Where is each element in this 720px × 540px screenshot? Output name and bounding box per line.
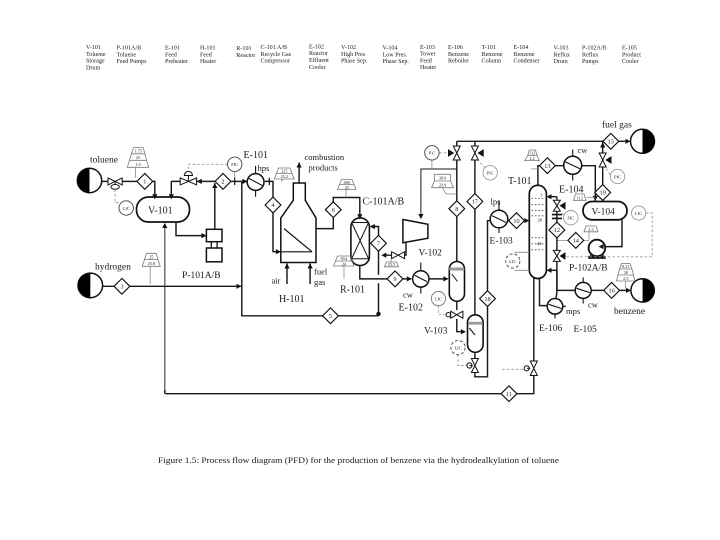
svg-text:V-104: V-104: [592, 208, 616, 218]
control valve V-103 bottom: [471, 359, 478, 373]
stream diamond 5: [323, 308, 339, 324]
svg-text:LIC: LIC: [509, 259, 516, 264]
instrument LIC V-103: [451, 341, 465, 355]
wire E-105 to benzene exit: [591, 289, 628, 291]
svg-text:23.9: 23.9: [439, 183, 446, 188]
svg-text:9: 9: [393, 276, 396, 283]
control valve reflux upper: [553, 200, 560, 211]
arrow into P-101 suction: [201, 233, 206, 238]
svg-text:E-104BenzeneCondenser: E-104BenzeneCondenser: [514, 45, 540, 65]
svg-text:6: 6: [332, 207, 335, 214]
arrow into fuel gas circle: [626, 139, 631, 144]
R-101 internals: [351, 223, 369, 259]
wire V-101 spillback inlet: [171, 181, 180, 194]
wire fuel gas header: [457, 140, 603, 142]
hand valve toluene line: [108, 178, 122, 185]
flag connector compressor: [442, 188, 457, 194]
svg-text:3: 3: [120, 284, 123, 291]
arrow spillback into valve: [197, 179, 202, 184]
flag connector overhead: [531, 168, 538, 170]
stream diamond 15: [603, 133, 619, 149]
svg-text:25: 25: [149, 254, 153, 259]
stream diamond 7: [371, 235, 387, 251]
wire H-101 stack: [298, 163, 300, 184]
signal LIC V-103 to valve: [458, 355, 467, 366]
svg-text:E-106: E-106: [539, 324, 562, 334]
wire E-103 right to diamond 10: [508, 220, 510, 222]
svg-text:2: 2: [221, 179, 224, 186]
flag connector V-104 in: [587, 196, 596, 198]
svg-text:2.2: 2.2: [529, 156, 534, 161]
svg-text:5: 5: [329, 313, 332, 320]
V-102 inlet deflector: [452, 274, 458, 282]
svg-text:112: 112: [529, 151, 535, 156]
svg-text:C-101 A/BRecycle GasCompressor: C-101 A/BRecycle GasCompressor: [261, 45, 292, 65]
svg-text:H-101FeedHeater: H-101FeedHeater: [200, 46, 216, 66]
svg-text:P-101A/B: P-101A/B: [182, 271, 221, 281]
wire reboiler return into column: [551, 269, 557, 271]
svg-text:25: 25: [136, 155, 140, 160]
stream diamond 4: [265, 197, 281, 213]
flag stream 6 R-101 feed: [338, 180, 357, 190]
stream diamond 3: [114, 278, 130, 294]
svg-text:cw: cw: [578, 145, 589, 155]
wire reflux vertical: [551, 197, 557, 291]
wire header to diamond 15 and fuel gas exit: [619, 140, 630, 142]
valve V-102 bottom: [451, 311, 463, 318]
V-103 internal band: [468, 322, 482, 325]
svg-text:225: 225: [281, 169, 287, 174]
svg-text:LIC: LIC: [454, 345, 461, 350]
svg-text:P.C: P.C: [429, 151, 435, 156]
control valve V-104 purge: [599, 153, 606, 167]
svg-text:toluene: toluene: [90, 156, 118, 166]
wire V-102 bottom to V-103: [457, 301, 465, 331]
flag stream 9 R-101 out: [334, 256, 355, 266]
svg-text:hydrogen: hydrogen: [95, 263, 131, 273]
V-103 inlet deflector: [469, 328, 475, 335]
arrow into benzene circle: [626, 288, 631, 293]
svg-text:38.0: 38.0: [439, 176, 446, 181]
wire E-103 to T-101 feed: [508, 220, 526, 222]
flag stream 1 toluene: [127, 148, 148, 168]
svg-text:10: 10: [513, 218, 519, 225]
svg-text:1.9: 1.9: [135, 162, 140, 167]
arrow into E-102: [407, 276, 412, 281]
wire H-101 coil inlet: [281, 229, 316, 252]
wire V-101 bottom to P-101 suction: [176, 222, 206, 236]
flag connector R-101 out: [343, 266, 345, 279]
wire air inlet: [286, 264, 288, 285]
compressor C-101A/B: [403, 220, 428, 243]
svg-text:air: air: [272, 276, 281, 286]
exchanger E-105: [575, 282, 591, 298]
control valve fuel gas header (V-102 purge): [453, 146, 460, 160]
svg-text:FIC: FIC: [567, 216, 574, 221]
svg-text:LIC: LIC: [435, 296, 442, 301]
flag stream 4 E-101: [274, 168, 294, 179]
wire hydrogen riser junction to E-101 line: [242, 181, 379, 315]
svg-text:17: 17: [472, 199, 478, 206]
pump P-102A/B: [589, 240, 606, 257]
svg-text:R-101Reactor: R-101Reactor: [236, 46, 255, 59]
wire recycle corner: [164, 390, 166, 394]
benzene sink circle: [631, 279, 654, 302]
vessel V-102: [449, 262, 464, 302]
flag connector discharge valve: [390, 259, 392, 262]
wire toluene feed to valve: [102, 180, 109, 182]
svg-text:T-101BenzeneColumn: T-101BenzeneColumn: [482, 45, 503, 65]
vessel V-101: [137, 197, 190, 222]
signal LIC V-102 to valve: [438, 306, 447, 315]
wire column bottoms product line: [166, 278, 534, 394]
svg-text:mps: mps: [566, 306, 580, 316]
reactor R-101: [351, 218, 370, 266]
arrow recycle into V-101 bottom: [162, 223, 167, 228]
wire R-101 outlet to E-102: [360, 266, 387, 279]
instrument FIC reflux: [564, 211, 578, 225]
svg-text:2.5: 2.5: [623, 276, 628, 281]
wire T-101 overhead to E-104: [538, 166, 564, 186]
stream diamond 8: [449, 201, 465, 217]
wire V-104 bottom to P-102: [601, 220, 623, 247]
svg-text:hps: hps: [258, 163, 270, 173]
toluene source circle: [77, 168, 101, 192]
svg-text:V-101TolueneStorageDrum: V-101TolueneStorageDrum: [86, 45, 106, 71]
wire V-102 top riser to fuel gas header: [456, 141, 458, 261]
svg-text:1.75: 1.75: [135, 149, 142, 154]
svg-text:fuel: fuel: [314, 267, 328, 277]
instrument LIC V-101: [119, 201, 133, 215]
signal LIC V-101 to toluene valve: [115, 190, 119, 203]
hydrogen source circle: [78, 273, 103, 298]
arrow into H-101: [276, 249, 281, 254]
svg-text:V-102: V-102: [419, 249, 443, 259]
svg-text:fuel gas: fuel gas: [602, 120, 632, 131]
instrument LIC V-104: [632, 206, 646, 220]
control valve V-103 vapor line: [471, 146, 478, 160]
furnace H-101: [281, 183, 316, 263]
stream diamond 16: [604, 283, 620, 299]
fuel gas sink circle: [631, 129, 655, 153]
svg-text:cw: cw: [403, 290, 414, 300]
exchanger E-102: [413, 271, 429, 287]
T-101 tray dashes: [532, 199, 545, 250]
vessel V-103: [468, 315, 484, 353]
arrow into V-101 top spillback: [169, 194, 174, 199]
svg-text:P-102A/BRefluxPumps: P-102A/BRefluxPumps: [582, 46, 607, 66]
orifice element reflux: [552, 215, 562, 219]
check valve compressor discharge: [392, 252, 405, 259]
svg-text:V-103RefluxDrum: V-103RefluxDrum: [554, 46, 571, 66]
flag P-102: [584, 226, 598, 232]
flag benzene product: [617, 264, 636, 282]
flag connector E-101: [281, 179, 284, 181]
svg-text:E-105: E-105: [574, 325, 597, 335]
signal PIC to valve 17: [478, 161, 485, 168]
V-102 internal band: [449, 268, 464, 271]
svg-text:38: 38: [624, 270, 628, 275]
arrow reboiler return into column: [547, 268, 552, 273]
LIC T-101 level taps: [515, 252, 530, 270]
svg-text:E-105ProductCooler: E-105ProductCooler: [622, 46, 641, 66]
arrow fuel gas up: [308, 263, 313, 268]
vessel V-104 reflux drum: [583, 202, 627, 220]
wire hydrogen feed: [103, 285, 242, 287]
exchanger E-104: [564, 156, 582, 174]
arrow air up: [284, 263, 289, 268]
exchanger E-103: [490, 210, 508, 228]
instrument PIC column: [483, 166, 497, 180]
flag connector P-102: [588, 232, 590, 239]
stream diamond 9: [387, 271, 403, 287]
svg-text:combustion: combustion: [305, 152, 345, 162]
arrow hydrogen junction: [237, 284, 242, 289]
arrow into R-101 side: [370, 224, 375, 229]
wire junction to diamond 2: [214, 180, 216, 182]
svg-text:LIC: LIC: [635, 211, 642, 216]
wire V-104 purge riser: [602, 141, 604, 203]
arrow into recycle line from check valve: [381, 253, 386, 258]
svg-text:V-102High PresPhase Sep.: V-102High PresPhase Sep.: [341, 45, 368, 65]
wire diamond 1 to V-101 top inlet: [153, 181, 155, 194]
wire P-102 discharge to diamond 14: [557, 239, 589, 241]
wire V-103 bottom to valve: [474, 353, 476, 358]
svg-text:25.5: 25.5: [388, 262, 395, 267]
svg-text:112: 112: [577, 196, 583, 201]
svg-text:8: 8: [455, 206, 458, 213]
svg-text:products: products: [309, 163, 338, 173]
stream diamond 2: [215, 174, 231, 190]
arrow compressor suction down: [418, 214, 423, 219]
stream diamond 11: [501, 386, 517, 402]
svg-text:E-101FeedPreheater: E-101FeedPreheater: [165, 46, 188, 66]
svg-text:H-101: H-101: [279, 294, 305, 305]
arrow into V-102: [443, 276, 448, 281]
wire diamond 18 to E-103: [488, 221, 490, 291]
stream diamond 14: [568, 233, 584, 249]
svg-text:V-103: V-103: [424, 327, 448, 337]
wire spillback valve to pump riser junction: [197, 180, 215, 182]
instrument LIC T-101: [506, 254, 520, 268]
flag compressor discharge: [385, 262, 399, 267]
svg-text:25.8: 25.8: [148, 261, 155, 266]
svg-text:T-101: T-101: [508, 176, 532, 187]
svg-text:E-102ReactorEffluentCooler: E-102ReactorEffluentCooler: [309, 44, 329, 70]
wire diamond 9 to E-102: [403, 278, 411, 280]
svg-text:1: 1: [143, 179, 146, 186]
signal PC to purge valve: [439, 152, 448, 154]
svg-text:E-106BenzeneReboiler: E-106BenzeneReboiler: [448, 45, 469, 65]
wire valve to diamond 18 riser: [475, 307, 488, 377]
wire recycle gas vertical x378.5: [371, 227, 379, 316]
flag stream 3 hydrogen: [142, 253, 160, 266]
arrow into E-101: [242, 179, 247, 184]
svg-text:E-104: E-104: [559, 185, 583, 196]
svg-text:15: 15: [608, 139, 614, 146]
arrow into V-103 inlet: [461, 329, 466, 334]
exchanger E-106 reboiler: [547, 299, 563, 315]
svg-text:25.2: 25.2: [281, 174, 288, 179]
stream diamond 13: [540, 158, 556, 174]
arrow reflux into column: [547, 194, 552, 199]
pump connectors: [211, 242, 217, 248]
arrow into P-102 suction: [599, 244, 604, 249]
stream diamond 10: [509, 213, 525, 229]
wire diamond 2 to E-101: [231, 180, 247, 182]
signal to bottoms valve: [502, 368, 524, 370]
svg-text:E-103: E-103: [490, 237, 513, 247]
svg-text:P-101A/BTolueneFeed Pumps: P-101A/BTolueneFeed Pumps: [117, 46, 148, 66]
svg-text:C-101A/B: C-101A/B: [363, 197, 405, 208]
flag connector R-101 feed: [345, 189, 347, 198]
wire H-101 outlet to R-101 top: [316, 198, 360, 229]
svg-text:PIC: PIC: [487, 171, 494, 176]
arrow purge line up into header: [600, 142, 605, 147]
svg-text:PIC: PIC: [614, 174, 621, 179]
svg-text:gas: gas: [314, 277, 325, 287]
flag stream 13 overhead: [525, 150, 540, 161]
svg-text:19: 19: [600, 190, 606, 197]
wire E-106 vapor stub: [556, 270, 557, 299]
stream diamond 19: [595, 185, 611, 201]
arrow into V-101 top inlet: [152, 194, 157, 199]
stream diamond 1: [137, 174, 153, 190]
instrument PC compressor: [425, 146, 439, 160]
svg-text:benzene: benzene: [614, 307, 645, 317]
signal FIC to reflux valve: [561, 211, 564, 215]
wire valve to diamond 1: [122, 180, 137, 182]
svg-text:R-101: R-101: [340, 285, 365, 296]
signal FIC to spillback valve: [188, 164, 227, 171]
svg-text:12: 12: [554, 227, 560, 234]
svg-text:42: 42: [537, 241, 542, 246]
svg-text:cw: cw: [588, 300, 599, 310]
wire V-103 top riser: [474, 141, 476, 314]
exchanger E-101: [247, 174, 264, 191]
svg-text:E-103TowerFeedHeater: E-103TowerFeedHeater: [420, 45, 436, 71]
orifice tick after E-101: [268, 178, 270, 185]
PC tap to compressor line: [431, 160, 433, 169]
furnace coil Z: [282, 229, 313, 252]
flag stream 8 V-102: [432, 174, 454, 187]
orifice tick after diamond 2: [234, 178, 236, 185]
flag connector benzene: [625, 281, 627, 288]
junction dot recycle corner: [376, 312, 380, 316]
arrow into R-101 top: [357, 214, 362, 219]
svg-text:8.21: 8.21: [622, 264, 629, 269]
column T-101: [529, 185, 546, 278]
instrument LIC V-102: [431, 292, 445, 306]
svg-text:20: 20: [538, 217, 543, 222]
svg-text:LIC: LIC: [123, 206, 130, 211]
pump P-101B: [206, 248, 222, 262]
control valve distillate lower: [553, 250, 560, 261]
arrow into T-101 feed: [524, 218, 529, 223]
flag connector toluene: [135, 168, 137, 178]
instrument FIC feed: [228, 157, 242, 178]
svg-text:Figure 1.5: Process flow diag: Figure 1.5: Process flow diagram (PFD) f…: [158, 456, 560, 465]
svg-text:E-101: E-101: [244, 150, 268, 161]
arrow into V-104 top: [593, 196, 598, 201]
svg-text:25: 25: [345, 185, 349, 190]
flag V-104 inlet: [574, 194, 587, 201]
arrow stack up: [297, 162, 302, 167]
wire fuel gas inlet to H-101: [309, 264, 311, 285]
svg-text:18: 18: [484, 296, 490, 303]
stream diamond 17: [467, 194, 483, 210]
wire E-101 outlet to H-101 inlet: [265, 181, 280, 251]
wire pump riser: [214, 183, 216, 229]
wire column bottoms to E-106: [540, 278, 548, 306]
signal LIC V-104: [566, 213, 652, 257]
wire E-104 outlet to V-104: [582, 166, 596, 201]
stream diamond 12: [549, 222, 565, 238]
svg-text:16: 16: [608, 288, 614, 295]
svg-text:E-102: E-102: [399, 303, 423, 314]
T-101 tray numbers: [537, 193, 543, 247]
stream diamond 6: [325, 202, 341, 218]
svg-text:lps: lps: [491, 197, 501, 207]
svg-text:13: 13: [544, 163, 550, 170]
instrument PIC V-104: [610, 169, 624, 183]
pump P-101A: [206, 229, 222, 241]
control valve column bottoms: [530, 361, 537, 376]
svg-text:2.3: 2.3: [588, 227, 593, 232]
signal PIC to V-104 purge valve: [605, 167, 610, 175]
wire compressor suction from riser: [421, 169, 457, 215]
svg-text:14: 14: [573, 238, 580, 245]
svg-text:V-104Low Pres.Phase Sep.: V-104Low Pres.Phase Sep.: [383, 46, 410, 66]
svg-text:7: 7: [377, 241, 380, 248]
svg-text:P-102A/B: P-102A/B: [569, 264, 608, 274]
svg-text:FIC: FIC: [231, 162, 238, 167]
wire recycle riser to V-101 (gray): [164, 225, 166, 394]
wire product line to E-105: [557, 289, 575, 291]
control valve V-101 spillback: [180, 178, 196, 185]
svg-text:V-101: V-101: [148, 206, 173, 217]
arrow pump riser up: [212, 183, 217, 188]
wire compressor discharge down and left: [383, 241, 406, 256]
svg-text:11: 11: [506, 391, 512, 398]
wire E-102 to V-102: [429, 278, 448, 280]
stream diamond 18: [480, 291, 496, 307]
flag connector hydrogen: [149, 266, 151, 284]
